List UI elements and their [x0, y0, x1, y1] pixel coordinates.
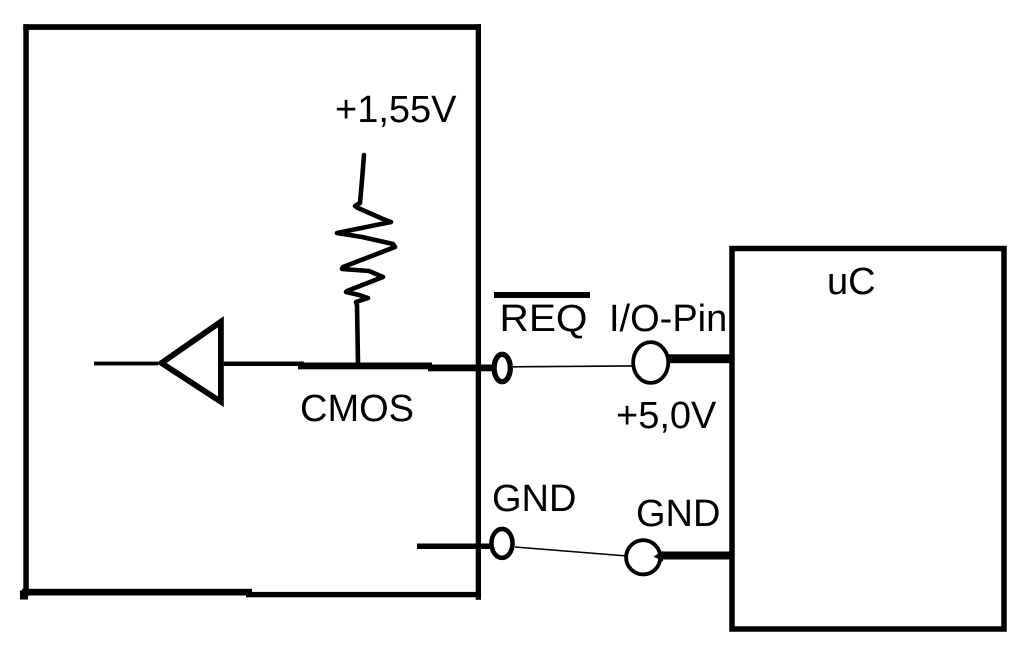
node REQ pin ellipse on box: [494, 354, 510, 381]
svg-text:REQ: REQ: [500, 298, 588, 340]
wire thick GND to uC: [658, 552, 733, 560]
wire to REQ pin (thick part, segment 2): [428, 365, 492, 372]
node I/O-Pin circle: [633, 342, 668, 383]
svg-text:CMOS: CMOS: [300, 388, 414, 430]
box left device: left edge: [23, 24, 29, 596]
box left device: top edge: [23, 24, 481, 30]
wire buffer output (thin part): [224, 362, 304, 367]
box left device: bottom edge right segment: [246, 592, 481, 597]
svg-text:uC: uC: [827, 261, 876, 303]
overline of REQ: [494, 292, 590, 298]
svg-text:GND: GND: [492, 478, 576, 520]
svg-text:+1,55V: +1,55V: [335, 89, 457, 131]
box left device: bottom edge left segment: [22, 589, 252, 596]
wire thin REQ to I/O pin: [511, 365, 633, 368]
buffer amplifier (triangle): [162, 322, 221, 402]
wire wedge GND circle: [654, 551, 664, 562]
corner blob bottom-left: [20, 591, 28, 600]
svg-text:GND: GND: [636, 493, 720, 535]
svg-text:I/O-Pin: I/O-Pin: [609, 298, 727, 340]
node GND circle uC: [626, 540, 660, 574]
box left device: right edge: [476, 24, 481, 600]
svg-text:+5,0V: +5,0V: [616, 395, 717, 437]
wire thin GND to uC pin: [515, 547, 627, 556]
wire thick I/O pin to uC: [667, 354, 734, 363]
wire to REQ pin (thick part, segment 1): [298, 363, 432, 370]
wire buffer input: [94, 362, 158, 366]
resistor R1: [337, 155, 395, 364]
node GND pin ellipse on box: [491, 529, 512, 558]
box uC: [732, 249, 1004, 630]
wire GND stub inside box: [417, 544, 492, 550]
